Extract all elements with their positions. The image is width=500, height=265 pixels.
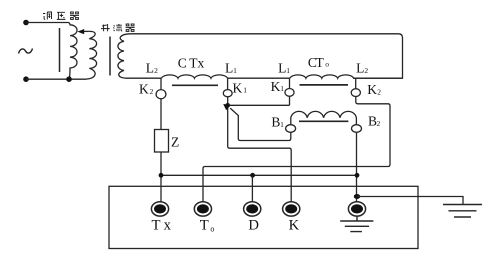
node dot bus at B2 wire <box>355 173 360 178</box>
node: K1 junction dot <box>225 103 230 108</box>
wire K1-CTx to K1-CT0 link <box>228 104 290 106</box>
terminal B1 <box>286 125 296 133</box>
instrument box <box>109 186 418 248</box>
wire secondary bottom to CTx <box>127 77 162 79</box>
CT CT0 core bar <box>300 84 349 86</box>
wire stub L1 to K1 terminal CTx <box>227 78 229 90</box>
wire B2 down to ground terminal <box>356 132 358 202</box>
source terminal bottom <box>23 76 29 82</box>
terminal Tx inner <box>154 204 166 213</box>
svg-text:B1: B1 <box>271 115 284 130</box>
source terminal top <box>23 20 29 26</box>
wire top left <box>26 22 68 24</box>
terminal K inner <box>285 204 297 213</box>
wire stub D terminal <box>251 175 253 202</box>
wire top rail of secondary loop <box>130 34 403 78</box>
terminal earth inner <box>351 204 363 213</box>
CT CT0 primary winding <box>290 75 354 78</box>
wire K1-CTx down to K terminal <box>228 97 292 202</box>
winding B secondary of CT0 <box>291 111 357 124</box>
svg-text:CTx: CTx <box>178 56 205 71</box>
terminal D outer <box>244 202 261 216</box>
wire K1-CT0 down to link <box>289 96 291 105</box>
terminal K2 of CT0 <box>351 89 360 97</box>
terminal K outer <box>283 202 300 216</box>
svg-text:CTo: CTo <box>308 55 329 70</box>
wire K2-CT0 to T0 terminal <box>203 97 390 203</box>
terminal K1 of CTx <box>223 90 232 97</box>
transformer T2 booster secondary coil <box>118 34 130 78</box>
svg-text:K2: K2 <box>139 82 154 97</box>
transformer T1 primary bar <box>59 28 61 72</box>
svg-text:To: To <box>200 218 215 234</box>
AC source symbol ~ <box>19 49 33 54</box>
svg-text:D: D <box>248 218 259 234</box>
label 升流器 (current booster) hand-drawn strokes <box>101 24 135 31</box>
svg-text:K2: K2 <box>367 82 381 97</box>
winding B core bar <box>299 120 348 122</box>
wire wiper to booster primary <box>86 31 97 79</box>
terminal K1 of CT0 <box>285 89 294 97</box>
wire bottom left <box>26 78 86 80</box>
wire Z to bus <box>160 152 162 202</box>
terminal K2 of CTx <box>156 90 166 99</box>
svg-text:L2: L2 <box>356 60 368 75</box>
svg-text:K1: K1 <box>271 79 285 94</box>
svg-text:Tx: Tx <box>152 218 172 234</box>
svg-text:L2: L2 <box>146 60 158 75</box>
terminal T0 outer <box>194 202 211 216</box>
node dot ground link <box>354 194 360 199</box>
CT CTx core bar <box>172 84 218 86</box>
variac wiper arrow <box>84 30 89 32</box>
wire CT0 winding end to top loop <box>354 77 403 79</box>
wire between CTx and CT0 <box>228 77 291 79</box>
svg-text:K: K <box>289 218 300 234</box>
node dot bus at D <box>250 173 255 178</box>
external earth symbol <box>443 205 482 218</box>
wire stub L2 to K2 terminal CTx <box>160 78 162 90</box>
wire stub L2 to K2 terminal CT0 <box>355 78 357 88</box>
label 调压器 (voltage regulator) hand-drawn strokes <box>43 12 79 20</box>
svg-text:B2: B2 <box>368 114 381 129</box>
svg-text:Z: Z <box>171 135 179 150</box>
svg-text:L1: L1 <box>278 60 290 75</box>
terminal earth outer <box>348 202 365 216</box>
bus wire B (lower) <box>161 174 357 176</box>
svg-text:L1: L1 <box>225 60 237 75</box>
terminal B2 <box>352 125 362 133</box>
node: variac bottom junction <box>66 76 72 82</box>
wire ground link to external earth <box>357 197 463 205</box>
svg-text:K1: K1 <box>233 80 248 95</box>
transformer T1 variac coil <box>68 23 77 80</box>
terminal Tx outer <box>151 202 168 216</box>
CT CTx primary winding <box>162 75 228 78</box>
wire K2 to impedance Z <box>160 98 162 129</box>
wire B1 to K1 junction with arrow <box>230 108 291 140</box>
internal earth symbol <box>340 216 373 232</box>
terminal T0 inner <box>197 204 209 213</box>
impedance Z box <box>155 130 169 153</box>
node dot bus at Z <box>159 173 164 178</box>
terminal D inner <box>246 204 258 213</box>
transformer T2 core bar <box>109 37 111 76</box>
wire stub L1 to K1 terminal CT0 <box>289 78 291 88</box>
